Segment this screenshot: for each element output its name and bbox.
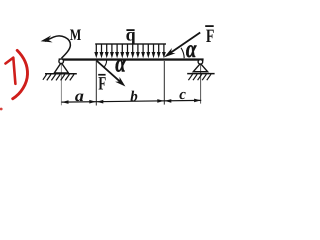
distributed load arrowheads xyxy=(94,52,166,58)
right support extension line xyxy=(200,63,202,104)
distributed load top line xyxy=(95,43,166,44)
svg-text:F: F xyxy=(98,73,106,94)
svg-text:α: α xyxy=(186,36,197,63)
svg-text:q: q xyxy=(126,24,136,44)
left support triangle xyxy=(54,63,68,73)
dimension extension line at b-c boundary xyxy=(163,61,165,105)
red handwritten parenthesis xyxy=(13,50,28,98)
left support pin circle xyxy=(59,59,64,64)
label F bar right xyxy=(205,25,214,27)
left ground line xyxy=(45,73,77,75)
moment M arrowhead xyxy=(41,35,53,42)
dim arrow left end xyxy=(62,100,69,104)
left force arrowhead xyxy=(115,77,125,87)
svg-text:F: F xyxy=(206,26,215,47)
right force arrowhead xyxy=(164,48,176,57)
left angle alpha arc xyxy=(104,60,107,67)
dim arrows at x=164 xyxy=(157,99,164,103)
left inclined force F line xyxy=(96,61,120,82)
right ground hatching xyxy=(188,74,211,80)
left ground hatching xyxy=(43,74,74,80)
right support triangle xyxy=(193,63,207,71)
red speck at left edge xyxy=(0,108,3,111)
dimension extension line at load/force point xyxy=(95,61,97,106)
distributed load arrows xyxy=(96,44,164,53)
label F bar left xyxy=(98,74,105,76)
dim arrow right end xyxy=(194,99,201,103)
label q bar xyxy=(126,29,134,31)
right ground line xyxy=(187,73,214,75)
dim arrows at x=96 xyxy=(89,100,96,104)
svg-text:α: α xyxy=(115,51,126,78)
svg-text:M: M xyxy=(70,27,82,44)
beam xyxy=(59,58,204,60)
svg-text:c: c xyxy=(179,87,186,103)
right support pin circle xyxy=(198,60,203,65)
moment M arc xyxy=(45,36,70,58)
right inclined force F line xyxy=(170,33,201,54)
svg-text:b: b xyxy=(130,89,138,105)
dimension line xyxy=(61,100,201,102)
left support extension line (gray through triangle) xyxy=(60,62,62,105)
right angle alpha arc xyxy=(181,48,184,58)
svg-text:a: a xyxy=(75,88,84,105)
red handwritten digit 1 xyxy=(6,58,16,84)
